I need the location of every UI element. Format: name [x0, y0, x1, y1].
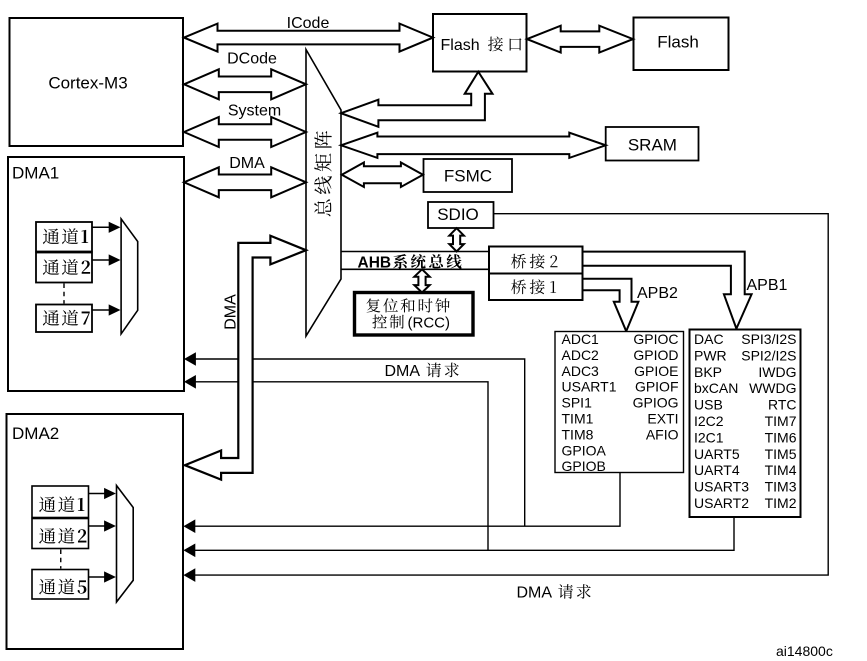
- svg-text:SDIO: SDIO: [437, 205, 479, 224]
- svg-text:GPIOD: GPIOD: [633, 347, 678, 363]
- svg-text:WWDG: WWDG: [749, 380, 796, 396]
- svg-text:DAC: DAC: [694, 331, 724, 347]
- svg-text:UART4: UART4: [694, 462, 740, 478]
- svg-text:SPI1: SPI1: [562, 395, 593, 411]
- svg-text:AFIO: AFIO: [646, 426, 679, 442]
- svg-text:GPIOF: GPIOF: [635, 379, 679, 395]
- svg-text:ADC2: ADC2: [562, 347, 600, 363]
- svg-text:TIM2: TIM2: [765, 495, 797, 511]
- svg-text:RTC: RTC: [768, 397, 797, 413]
- svg-text:APB1: APB1: [747, 277, 788, 294]
- svg-text:TIM7: TIM7: [765, 413, 797, 429]
- svg-text:GPIOB: GPIOB: [562, 458, 606, 474]
- svg-text:bxCAN: bxCAN: [694, 380, 738, 396]
- svg-text:SPI2/I2S: SPI2/I2S: [741, 347, 796, 363]
- svg-text:SPI3/I2S: SPI3/I2S: [741, 331, 796, 347]
- svg-text:DMA: DMA: [229, 155, 265, 172]
- svg-text:ADC3: ADC3: [562, 363, 600, 379]
- svg-text:GPIOE: GPIOE: [634, 363, 678, 379]
- svg-text:TIM3: TIM3: [765, 479, 797, 495]
- svg-text:GPIOG: GPIOG: [633, 395, 679, 411]
- svg-text:GPIOC: GPIOC: [633, 331, 678, 347]
- svg-text:Flash: Flash: [657, 33, 699, 52]
- svg-text:DMA: DMA: [385, 363, 421, 380]
- svg-text:I2C2: I2C2: [694, 413, 724, 429]
- svg-text:I2C1: I2C1: [694, 429, 724, 445]
- svg-text:DMA2: DMA2: [12, 424, 59, 443]
- svg-text:DMA1: DMA1: [12, 164, 59, 183]
- svg-text:AHB: AHB: [358, 254, 392, 271]
- svg-text:USB: USB: [694, 397, 723, 413]
- svg-text:BKP: BKP: [694, 364, 722, 380]
- svg-text:EXTI: EXTI: [647, 411, 678, 427]
- svg-text:USART3: USART3: [694, 479, 749, 495]
- svg-text:Cortex-M3: Cortex-M3: [48, 74, 127, 93]
- svg-text:TIM8: TIM8: [562, 426, 594, 442]
- svg-text:UART5: UART5: [694, 446, 740, 462]
- svg-text:DCode: DCode: [227, 51, 277, 68]
- svg-text:FSMC: FSMC: [444, 167, 492, 186]
- svg-text:USART2: USART2: [694, 495, 749, 511]
- svg-text:Flash: Flash: [441, 37, 480, 54]
- svg-text:GPIOA: GPIOA: [562, 442, 607, 458]
- svg-text:ADC1: ADC1: [562, 331, 600, 347]
- svg-text:(RCC): (RCC): [408, 315, 451, 332]
- svg-text:TIM1: TIM1: [562, 411, 594, 427]
- svg-text:System: System: [228, 102, 281, 119]
- svg-text:TIM6: TIM6: [765, 429, 797, 445]
- svg-text:PWR: PWR: [694, 347, 727, 363]
- svg-text:DMA: DMA: [517, 585, 553, 602]
- svg-text:TIM5: TIM5: [765, 446, 797, 462]
- svg-text:USART1: USART1: [562, 379, 617, 395]
- svg-text:IWDG: IWDG: [758, 364, 796, 380]
- svg-text:TIM4: TIM4: [765, 462, 797, 478]
- svg-text:ICode: ICode: [287, 15, 330, 32]
- svg-text:ai14800c: ai14800c: [776, 643, 833, 659]
- svg-text:SRAM: SRAM: [628, 136, 677, 155]
- svg-text:APB2: APB2: [637, 285, 678, 302]
- svg-text:DMA: DMA: [223, 294, 240, 330]
